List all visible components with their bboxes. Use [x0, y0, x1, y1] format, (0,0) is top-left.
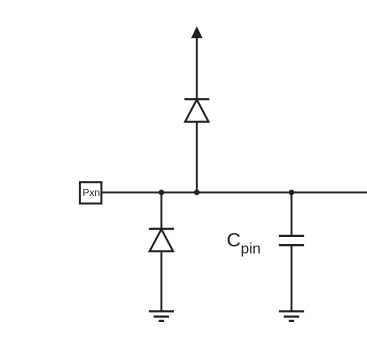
diode D1 (pin to VCC clamp), cathode up: [184, 99, 209, 122]
ground (below Cpin): [279, 311, 304, 321]
wire: horizontal net from Pxn pad to right edge: [102, 191, 367, 193]
label Cpin value: [227, 230, 261, 258]
wire: vertical segment from node down to lower diode cathode: [160, 192, 162, 228]
wire: vertical segment from lower diode anode to ground: [160, 251, 162, 311]
pin box Pxn: [80, 182, 102, 203]
wire: vertical segment from upper diode cathode to VCC arrow: [196, 37, 198, 100]
svg-text:Cpin: Cpin: [227, 230, 261, 258]
wire: vertical segment from node up to upper diode anode: [196, 122, 198, 193]
junction dot: node at Cpin branch: [289, 190, 295, 196]
ground (below D2): [149, 311, 174, 321]
power arrow (VCC): [192, 27, 202, 38]
junction dot: node at upper ESD diode branch: [194, 190, 200, 196]
capacitor Cpin: [279, 236, 304, 245]
diode D2 (GND to pin clamp), cathode up: [149, 229, 174, 252]
junction dot: node at lower ESD diode branch: [159, 190, 165, 196]
svg-text:Pxn: Pxn: [83, 188, 101, 199]
wire: vertical segment from Cpin bottom plate to ground: [291, 245, 293, 311]
wire: vertical segment from node down to Cpin top plate: [291, 192, 293, 236]
